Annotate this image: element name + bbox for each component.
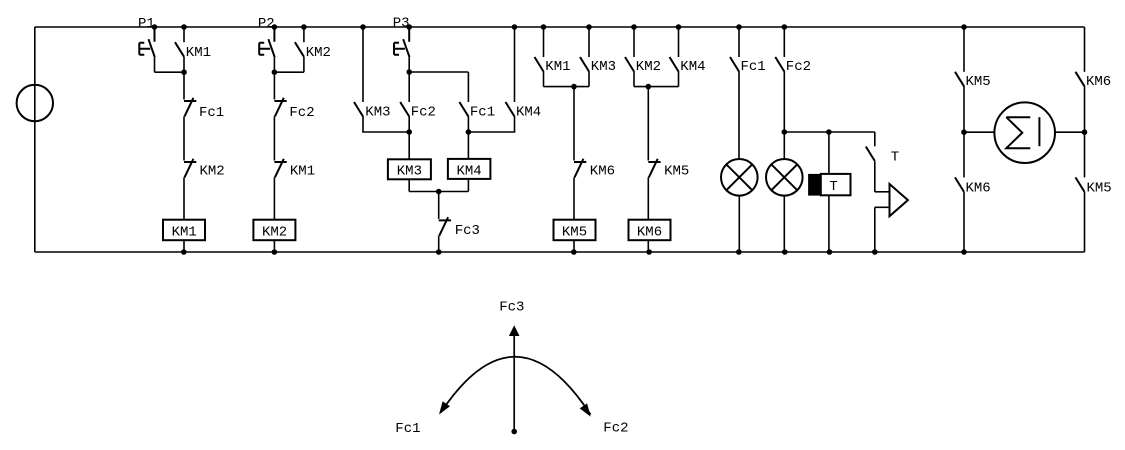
node b6 bottom: [646, 249, 652, 255]
svg-text:KM4: KM4: [680, 59, 705, 75]
node KM1 tap b5: [541, 24, 547, 30]
contact KM5 (NO) hb lower: [1076, 177, 1085, 192]
contact KM2 (NC): [184, 159, 196, 178]
svg-text:P2: P2: [258, 16, 275, 32]
wire P2 lower stub: [273, 57, 275, 72]
coil KM5: [554, 220, 596, 241]
wire b5 parallel join: [544, 86, 590, 88]
svg-text:KM6: KM6: [1086, 74, 1111, 90]
node b5 join: [571, 84, 577, 90]
svg-text:Fc1: Fc1: [470, 104, 495, 120]
motor bar symbol: [1038, 117, 1040, 146]
contact KM3 (NO) b5: [580, 57, 589, 72]
wire coils join: [409, 191, 468, 193]
node Fc2 tap b8: [782, 24, 788, 30]
node Fc3 top: [436, 189, 442, 195]
wire lamp HL1 to bottom: [738, 196, 740, 252]
wire Fc1 to KM2: [183, 116, 185, 160]
contact KM6 (NO) hb lower: [955, 177, 964, 192]
coil KM4: [448, 159, 491, 179]
node branch3 join: [406, 69, 412, 75]
arc Fc1-Fc2 travel: [441, 357, 591, 415]
node horn bottom: [872, 249, 878, 255]
horn upper stub: [875, 191, 890, 193]
motor sigma symbol: [1006, 117, 1030, 148]
svg-text:KM2: KM2: [200, 164, 225, 180]
contact Fc1 (NC): [184, 98, 196, 117]
svg-text:Fc1: Fc1: [395, 421, 420, 437]
contact Fc2 (NO) b8: [775, 57, 784, 72]
wire KM2 contact lower stub: [303, 57, 305, 72]
contact T (NO): [866, 147, 875, 162]
node b6 join: [646, 84, 652, 90]
svg-text:Fc2: Fc2: [786, 59, 811, 75]
wire b6 to KM5: [647, 87, 649, 161]
wire KM4 stub b6: [678, 27, 680, 57]
wire coil KM2 to bottom: [273, 240, 275, 252]
wire KM3 corner to node: [362, 131, 409, 133]
node b7 bottom: [736, 249, 742, 255]
wire Fc2 lower stub: [408, 116, 410, 132]
node motor right: [1082, 129, 1088, 135]
wire P3 join to Fc1 branch: [409, 71, 468, 73]
wire KM3 lower stub: [362, 116, 364, 132]
svg-text:KM5: KM5: [1087, 181, 1112, 197]
node KM4 contact tap: [512, 24, 518, 30]
wire coil KM5 to bottom: [573, 240, 575, 252]
svg-text:T: T: [891, 150, 899, 166]
wire hbridge left upper: [963, 27, 965, 72]
svg-text:Fc3: Fc3: [499, 299, 524, 315]
node KM2 tap b6: [631, 24, 637, 30]
horn lower stub: [875, 206, 890, 208]
wire P3 lower stub: [408, 57, 410, 72]
node b8 bottom: [782, 249, 788, 255]
wire to coil KM4: [467, 132, 469, 159]
wire left rail: [34, 27, 36, 252]
contact KM1 (NO) b5: [535, 57, 544, 72]
source generator G: [17, 85, 53, 121]
wire branch1 to Fc1: [183, 72, 185, 99]
node timer coil bottom: [827, 249, 833, 255]
node branch2 KM2 tap: [301, 24, 307, 30]
lamp HL2: [766, 159, 803, 196]
wire Fc1 contact stub: [467, 72, 469, 102]
node branch2 P2 tap: [272, 24, 278, 30]
timer coil T black section: [808, 174, 821, 196]
svg-text:KM3: KM3: [397, 164, 422, 180]
svg-text:Fc2: Fc2: [289, 105, 314, 121]
coil KM3: [388, 159, 431, 179]
svg-text:Fc2: Fc2: [603, 420, 628, 436]
wire KM6 to coil KM5: [573, 177, 575, 219]
wire horn to bottom: [874, 207, 876, 252]
svg-text:Fc1: Fc1: [741, 59, 766, 75]
node branch1 bottom: [181, 249, 187, 255]
node branch2 bottom: [272, 249, 278, 255]
wire KM2 to coil KM1: [183, 177, 185, 219]
node branch1 join: [181, 69, 187, 75]
svg-text:KM2: KM2: [262, 225, 287, 241]
arrowhead Fc1 end: [439, 401, 450, 414]
svg-text:KM1: KM1: [545, 59, 570, 75]
svg-text:KM5: KM5: [562, 225, 587, 241]
svg-text:P1: P1: [138, 16, 155, 32]
node KM4 coil top: [466, 129, 472, 135]
coil KM6: [629, 220, 671, 241]
svg-text:KM2: KM2: [636, 59, 661, 75]
wire Fc1 lower stub: [467, 116, 469, 132]
svg-text:KM4: KM4: [516, 104, 541, 120]
wire coil KM4 to join: [467, 179, 469, 192]
wire lamp HL2 stub: [783, 132, 785, 159]
contact KM6 (NO) hb: [1076, 72, 1085, 87]
wire coil KM3 to join: [408, 179, 410, 191]
svg-text:T: T: [829, 179, 837, 195]
svg-text:KM1: KM1: [172, 225, 197, 241]
wire KM3 lower b5: [588, 71, 590, 86]
node Fc3 bottom: [436, 249, 442, 255]
wire KM5 to motor node: [963, 86, 965, 132]
wire Fc2 contact stub: [408, 72, 410, 102]
svg-text:KM5: KM5: [664, 164, 689, 180]
wire KM4 corner to node: [468, 131, 515, 133]
svg-text:KM1: KM1: [290, 164, 315, 180]
contact Fc2 (NO) mid: [400, 102, 409, 117]
contact KM2 (NO): [295, 42, 304, 57]
arrow up Fc3: [509, 325, 520, 336]
node motor left: [961, 129, 967, 135]
contact Fc1 (NO) b7: [730, 57, 739, 72]
node KM3 tap b5: [586, 24, 592, 30]
wire Fc1 stub b7: [738, 27, 740, 57]
arrowhead Fc2 end: [580, 403, 591, 416]
wire T contact to horn: [874, 161, 876, 192]
svg-text:KM3: KM3: [591, 59, 616, 75]
node KM4 tap b6: [676, 24, 682, 30]
wire lamp HL2 to bottom: [783, 196, 785, 252]
svg-text:KM6: KM6: [966, 181, 991, 197]
node branch1 P1 tap: [152, 24, 158, 30]
contact Fc1 (NO) mid: [459, 102, 468, 117]
wire KM2 lower b6: [633, 71, 635, 86]
wire tap line to T branches: [784, 131, 875, 133]
svg-text:Fc3: Fc3: [455, 223, 480, 239]
node Fc1 tap b7: [736, 24, 742, 30]
wire to coil KM3: [408, 132, 410, 159]
wire b6 parallel join: [634, 86, 679, 88]
wire P1 lower stub: [154, 57, 156, 72]
wire branch2 parallel join: [274, 71, 304, 73]
node Fc3 diagram pivot: [511, 429, 517, 435]
wire KM1 contact lower stub: [183, 57, 185, 72]
contact Fc3 (NC): [439, 217, 451, 236]
pushbutton P2: [259, 27, 275, 57]
wire hbridge left lower stub: [963, 132, 965, 177]
wire Fc1 to lamp: [738, 71, 740, 159]
wire hbridge right upper: [1084, 27, 1086, 72]
svg-text:KM6: KM6: [637, 225, 662, 241]
svg-text:KM2: KM2: [306, 45, 331, 61]
wire timer coil to bottom: [828, 196, 830, 253]
wire KM1 contact stub: [183, 27, 185, 42]
wire KM4 contact stub: [514, 27, 516, 102]
wire coil KM6 to bottom: [647, 240, 649, 252]
wire KM1 lower b5: [543, 71, 545, 86]
svg-text:P3: P3: [393, 16, 410, 32]
coil KM2: [253, 220, 295, 241]
wire KM3 contact stub: [362, 27, 364, 102]
contact KM4 (NO): [506, 102, 515, 117]
wire KM6 to motor node: [1084, 86, 1086, 132]
node branch1 KM1 tap: [181, 24, 187, 30]
pushbutton P1: [139, 27, 155, 57]
svg-text:KM1: KM1: [186, 45, 211, 61]
svg-text:KM4: KM4: [456, 164, 481, 180]
pushbutton P3: [394, 27, 410, 57]
svg-text:KM3: KM3: [365, 104, 390, 120]
wire bottom bus: [35, 251, 1085, 253]
node P3 tap: [406, 24, 412, 30]
wire KM2 stub b6: [633, 27, 635, 57]
node hbridge bottom left: [961, 249, 967, 255]
contact KM5 (NC): [648, 159, 660, 178]
wire KM4 lower stub: [514, 116, 516, 132]
contact KM5 (NO) hb: [955, 72, 964, 87]
wire top bus: [35, 26, 1085, 28]
wire KM4 lower b6: [678, 71, 680, 86]
node b8 tap: [782, 129, 788, 135]
horn LS1 triangle: [890, 184, 908, 216]
wire KM5 to coil KM6: [647, 177, 649, 219]
contact KM1 (NC): [274, 159, 286, 178]
wire coil KM1 to bottom: [183, 240, 185, 252]
wire Fc3 to bottom: [438, 236, 440, 252]
contact KM3 (NO): [354, 102, 363, 117]
wire Fc2 to KM1: [273, 116, 275, 160]
node timer coil tap: [826, 129, 832, 135]
wire KM1 to coil KM2: [273, 177, 275, 219]
node branch2 join: [272, 69, 278, 75]
wire timer coil stub: [828, 132, 830, 174]
contact Fc2 (NC): [274, 98, 286, 117]
node KM3 coil top: [406, 129, 412, 135]
node b5 bottom: [571, 249, 577, 255]
wire Fc3 stub: [438, 192, 440, 219]
wire b5 to KM6: [573, 87, 575, 161]
wire KM2 contact stub: [303, 27, 305, 42]
wire motor right lead: [1055, 131, 1085, 133]
wire KM3 stub b5: [588, 27, 590, 57]
node KM3 contact tap: [360, 24, 366, 30]
wire T contact feed: [874, 132, 876, 146]
wire Fc3 diagram stem: [513, 336, 515, 432]
motor M circle: [994, 102, 1055, 163]
wire motor left lead: [964, 131, 994, 133]
wire hbridge right lower stub: [1084, 132, 1086, 177]
svg-text:Fc2: Fc2: [411, 104, 436, 120]
svg-text:KM5: KM5: [966, 74, 991, 90]
svg-text:Fc1: Fc1: [199, 105, 224, 121]
node hbridge left tap: [961, 24, 967, 30]
wire KM1 stub b5: [543, 27, 545, 57]
wire branch1 parallel join: [155, 71, 185, 73]
wire KM6 lower to bottom: [963, 192, 965, 252]
lamp HL1: [721, 159, 758, 196]
coil KM1: [163, 220, 205, 241]
contact KM1 (NO): [175, 42, 184, 57]
contact KM6 (NC): [574, 159, 586, 178]
wire KM5 lower to bottom: [1084, 192, 1086, 252]
contact KM2 (NO) b6: [625, 57, 634, 72]
timer coil T body: [821, 174, 851, 195]
svg-text:KM6: KM6: [590, 164, 615, 180]
wire branch2 to Fc2: [273, 72, 275, 99]
wire Fc2 stub b8: [783, 27, 785, 57]
wire Fc2 to tap node: [783, 71, 785, 132]
contact KM4 (NO) b6: [670, 57, 679, 72]
